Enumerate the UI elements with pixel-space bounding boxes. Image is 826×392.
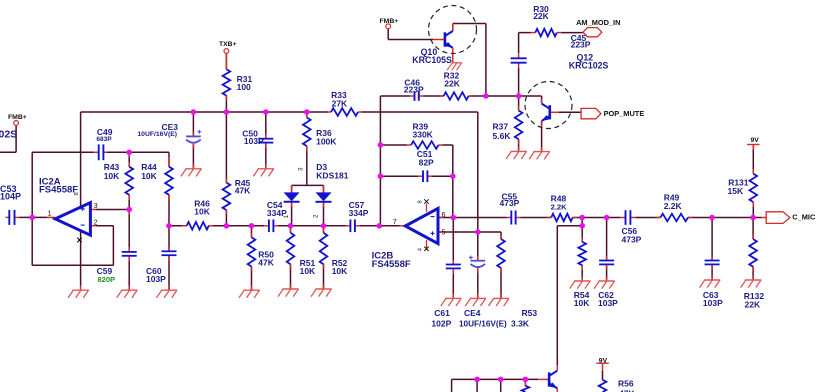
svg-text:100K: 100K (316, 137, 337, 147)
svg-text:103P: 103P (244, 136, 264, 146)
svg-text:223P: 223P (404, 85, 424, 95)
svg-text:22K: 22K (745, 300, 761, 310)
svg-text:100: 100 (237, 82, 251, 92)
svg-text:1: 1 (283, 215, 290, 219)
svg-text:104P: 104P (0, 191, 21, 201)
svg-text:TXB+: TXB+ (219, 41, 237, 48)
svg-text:47K: 47K (258, 257, 274, 267)
svg-text:10K: 10K (104, 171, 120, 181)
svg-text:R56: R56 (618, 378, 634, 388)
svg-text:2.2K: 2.2K (664, 201, 683, 211)
svg-text:22K: 22K (533, 11, 549, 21)
svg-text:9V: 9V (751, 137, 760, 144)
svg-text:820P: 820P (97, 275, 115, 284)
svg-text:10K: 10K (300, 266, 316, 276)
svg-text:2.2K: 2.2K (551, 202, 568, 211)
svg-text:47K: 47K (619, 389, 635, 392)
svg-text:R53: R53 (522, 308, 538, 318)
svg-text:KDS181: KDS181 (316, 170, 348, 180)
svg-text:47K: 47K (235, 186, 251, 196)
svg-text:8: 8 (418, 200, 424, 203)
svg-text:KRC105S: KRC105S (412, 55, 452, 65)
svg-text:POP_MUTE: POP_MUTE (604, 109, 645, 118)
svg-text:10UF/16V(E): 10UF/16V(E) (459, 319, 507, 328)
svg-text:5: 5 (442, 227, 446, 236)
svg-text:15K: 15K (728, 186, 744, 196)
svg-text:82P: 82P (419, 157, 434, 167)
svg-text:C61: C61 (434, 308, 450, 318)
svg-text:FS4558F: FS4558F (372, 259, 411, 270)
svg-text:3: 3 (298, 167, 305, 171)
svg-text:473P: 473P (622, 235, 642, 245)
svg-text:2: 2 (94, 217, 98, 226)
svg-text:FS4558F: FS4558F (39, 185, 78, 196)
svg-text:1: 1 (48, 209, 52, 218)
svg-text:10UF/16V(E): 10UF/16V(E) (137, 131, 177, 138)
svg-text:FMB+: FMB+ (380, 18, 399, 25)
svg-text:103P: 103P (703, 298, 723, 308)
svg-text:8: 8 (74, 192, 80, 195)
svg-text:683P: 683P (96, 136, 112, 143)
svg-text:10K: 10K (332, 266, 348, 276)
svg-text:10K: 10K (141, 171, 157, 181)
svg-text:10K: 10K (194, 206, 210, 216)
svg-text:103P: 103P (598, 298, 618, 308)
svg-text:102P: 102P (431, 318, 451, 328)
svg-text:330K: 330K (413, 129, 434, 139)
svg-text:27K: 27K (332, 98, 348, 108)
svg-text:C_MIC: C_MIC (792, 212, 816, 221)
svg-text:R37: R37 (493, 121, 509, 131)
svg-text:10K: 10K (574, 298, 590, 308)
svg-text:KRC102S: KRC102S (569, 61, 609, 71)
svg-text:7: 7 (393, 217, 397, 226)
svg-text:223P: 223P (571, 40, 591, 50)
svg-text:AM_MOD_IN: AM_MOD_IN (576, 18, 620, 27)
svg-text:3: 3 (94, 201, 98, 210)
svg-text:22K: 22K (444, 79, 460, 89)
svg-text:5.6K: 5.6K (493, 131, 512, 141)
svg-text:3.3K: 3.3K (511, 318, 530, 328)
svg-text:473P: 473P (500, 198, 520, 208)
svg-text:9V: 9V (599, 357, 608, 364)
svg-text:FMB+: FMB+ (8, 114, 27, 121)
svg-text:02S: 02S (0, 128, 17, 140)
svg-text:334P: 334P (349, 208, 369, 218)
svg-text:CE4: CE4 (464, 308, 481, 318)
svg-text:103P: 103P (146, 274, 166, 284)
svg-text:2: 2 (313, 214, 320, 218)
svg-text:6: 6 (442, 210, 446, 219)
